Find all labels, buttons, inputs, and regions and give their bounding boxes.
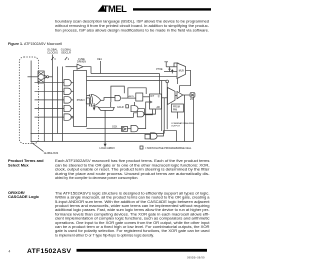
global bus region (dashed) xyxy=(19,57,38,144)
node GLOBAL CLOCKS label xyxy=(47,48,58,55)
wire OR to XOR xyxy=(87,95,91,97)
wire into mux M1 xyxy=(110,102,112,107)
AND gate G1 xyxy=(115,95,121,100)
wire output feedback xyxy=(184,95,186,142)
sidebar heading 1 xyxy=(8,158,44,167)
svg-text:LOGIC ARRAY: LOGIC ARRAY xyxy=(100,147,116,150)
AND gate PT4 xyxy=(64,105,71,111)
wire product term row 4 xyxy=(35,108,65,110)
AND gate G5 (fast feedback) xyxy=(151,133,158,139)
wire over-route 1 xyxy=(128,88,146,98)
legend text xyxy=(145,147,192,150)
AND gate PT1 xyxy=(64,80,71,86)
svg-text:OE/CLR: OE/CLR xyxy=(61,51,71,55)
wire net PTAS horizontal xyxy=(87,116,134,118)
svg-text:4: 4 xyxy=(9,250,11,254)
wire XOR output xyxy=(101,99,104,101)
svg-text:FROM: FROM xyxy=(173,106,180,108)
callout leader global bus xyxy=(32,143,44,152)
wire into G2 xyxy=(134,102,136,106)
wire PT1 output xyxy=(71,82,73,84)
svg-text:to implement either D or T typ: to implement either D or T type flip-flo… xyxy=(55,233,154,237)
product term select mux U1 xyxy=(74,71,87,127)
fuse cell F4 xyxy=(145,134,150,139)
wire PT3 output xyxy=(71,99,73,101)
wire bus return 1 xyxy=(31,133,165,135)
wire XOR output jog xyxy=(104,98,115,101)
svg-text:boundary scan description lang: boundary scan description language (BSDL… xyxy=(55,19,209,23)
svg-text:COMBINATORIAL/REG: COMBINATORIAL/REG xyxy=(171,122,195,125)
mux M2 (output select) xyxy=(168,88,176,105)
wire OE1 xyxy=(100,61,102,74)
node GCLR label xyxy=(117,106,124,109)
wire G5 output xyxy=(157,131,176,142)
wire net PTCLK horizontal xyxy=(87,80,166,82)
svg-text:tion process, ISP also allows: tion process, ISP also allows design mod… xyxy=(55,28,209,32)
wire OE input 2 xyxy=(164,71,177,73)
svg-text:0995B–08/99: 0995B–08/99 xyxy=(187,256,205,260)
wire product term row 2 xyxy=(35,90,65,92)
svg-text:without removing it from the p: without removing it from the printed cir… xyxy=(55,24,209,28)
wire product term row 3 xyxy=(35,99,65,101)
global bus line xyxy=(30,61,32,142)
wire mux M3 lower stub xyxy=(177,79,179,84)
node combinatorial output label xyxy=(171,122,195,128)
fuse cell F3 xyxy=(122,127,128,132)
node I/O label xyxy=(190,98,193,101)
mux M3 (OE select) xyxy=(177,63,186,79)
paragraph 2 xyxy=(55,191,210,237)
power VCC tick xyxy=(164,62,168,67)
arrow to next macrocell xyxy=(94,103,98,108)
latch U2 xyxy=(136,93,143,101)
label ASYN xyxy=(129,95,135,98)
wire OE feedback xyxy=(166,83,168,129)
sidebar heading 2 xyxy=(8,190,40,199)
bus width slash 2 xyxy=(65,57,67,60)
wire Q feedback xyxy=(163,98,165,134)
footer rule xyxy=(77,249,208,252)
wire OE column to buffer B2 xyxy=(66,66,78,68)
wire global clear column xyxy=(62,67,64,142)
svg-text:= NONVOLATILE PROGRAMMABLE CEL: = NONVOLATILE PROGRAMMABLE CELL xyxy=(145,147,192,150)
paragraph 1 xyxy=(55,159,211,180)
wire OE top corner xyxy=(174,63,178,67)
clock input marker U3 xyxy=(150,101,152,103)
svg-text:CASCADE Logic: CASCADE Logic xyxy=(8,194,40,199)
wire buffer B2 output xyxy=(83,67,91,74)
tri-state buffer B3 xyxy=(177,92,183,99)
svg-text:GCK: GCK xyxy=(112,126,118,129)
wire pin feedback xyxy=(193,97,195,141)
svg-text:GLOBAL BUS: GLOBAL BUS xyxy=(44,152,59,155)
svg-text:PTMUX: PTMUX xyxy=(77,100,86,102)
svg-text:PTOE: PTOE xyxy=(156,69,163,71)
wire over-route 2 xyxy=(111,86,124,102)
svg-text:TMEL: TMEL xyxy=(103,3,127,14)
wire Q output xyxy=(162,97,168,99)
svg-text:GCLR: GCLR xyxy=(117,106,124,109)
wire mux M1 output to logic array xyxy=(104,110,106,144)
wire product term row 5 xyxy=(35,116,65,118)
wire foldback PT row xyxy=(28,76,39,78)
node PTOE label xyxy=(156,69,163,71)
ground bubble xyxy=(166,80,169,83)
AND gate G4 (clock select) xyxy=(131,125,138,131)
svg-text:Select Mux: Select Mux xyxy=(8,162,29,167)
wire OE mux output to buffer enable xyxy=(180,70,191,92)
I/O pin PAD1 xyxy=(190,93,195,98)
wire G3 output to register AS xyxy=(144,109,156,114)
pin keeper box U4 xyxy=(172,104,184,112)
wire PT2 output xyxy=(71,90,73,92)
wire G1 output to latch xyxy=(121,97,136,99)
svg-text:OUTPUT: OUTPUT xyxy=(171,126,181,128)
wire net PTOE horizontal xyxy=(91,73,160,75)
register U3 (D/T flip-flop) xyxy=(150,94,162,109)
svg-text:Q: Q xyxy=(158,96,160,98)
AND gate PT5 xyxy=(64,114,71,120)
svg-text:D/T: D/T xyxy=(151,96,155,98)
Atmel logo xyxy=(98,3,127,14)
wire cascade feedback xyxy=(161,81,163,132)
wire PT4 output xyxy=(71,108,73,110)
top paragraph xyxy=(55,19,209,32)
inverter bubble PT5 xyxy=(71,116,73,118)
svg-text:DRIVEN: DRIVEN xyxy=(77,61,86,64)
AND gate G2 (async reset) xyxy=(131,106,138,112)
svg-text:abled by the compiler to decre: abled by the compiler to decrease power … xyxy=(55,176,138,180)
wire global clock column xyxy=(52,55,54,142)
fuse driven buffer label xyxy=(77,58,86,64)
wire into G3 xyxy=(134,113,138,118)
node GLOBAL BUS label xyxy=(44,152,59,155)
svg-text:AR: AR xyxy=(157,106,161,109)
svg-text:OE1: OE1 xyxy=(97,58,102,61)
wire U4 output xyxy=(177,112,179,119)
wire PT5 output xyxy=(72,116,75,118)
wire mux M2 output xyxy=(175,94,177,96)
fuse cell F2 xyxy=(126,105,129,108)
AND gate G3 (async preset) xyxy=(137,111,144,117)
fuse polarity cell xyxy=(86,98,89,104)
bus width digits xyxy=(54,58,70,61)
wire foldback to clock column xyxy=(49,76,53,78)
wire fuse to G4 xyxy=(128,128,132,130)
wire net clock row xyxy=(87,128,122,130)
svg-text:PIM: PIM xyxy=(173,109,177,111)
fuse mark on OE input xyxy=(168,67,170,72)
svg-text:ATF1502ASV Macrocell: ATF1502ASV Macrocell xyxy=(24,42,62,46)
fuse cell F1 xyxy=(38,71,44,83)
svg-text:ASYN: ASYN xyxy=(129,95,135,98)
buffer B1 xyxy=(44,75,46,79)
svg-text:MUX: MUX xyxy=(179,71,185,73)
bus width slash 3 xyxy=(51,57,53,60)
AND gate PT2 xyxy=(64,88,71,94)
wire VCC to mux M3 xyxy=(166,66,177,68)
arrow OE select xyxy=(171,70,173,74)
wire G4 output to register clock xyxy=(138,102,150,129)
wire product term row 1 xyxy=(35,82,65,84)
buffer B2 xyxy=(77,64,83,69)
wire fuse column xyxy=(43,84,45,142)
node GCK label xyxy=(112,126,118,129)
wire buffer B3 output to pin xyxy=(183,94,190,96)
wire PTOE drop to register xyxy=(159,74,161,95)
svg-text:CLOCKS: CLOCKS xyxy=(47,51,58,55)
wire net CASIN horizontal xyxy=(87,76,178,78)
wire G2 output to register AR xyxy=(138,109,153,115)
node OE1 label xyxy=(97,58,102,61)
mux M1 (reset select) xyxy=(98,107,114,110)
wire bus return 2 xyxy=(31,141,194,143)
svg-text:Figure 1.: Figure 1. xyxy=(8,42,23,46)
AND gate PT3 xyxy=(64,97,71,103)
node LOGIC ARRAY label xyxy=(100,147,116,150)
svg-text:ATF1502ASV: ATF1502ASV xyxy=(27,248,72,255)
svg-text:I/O: I/O xyxy=(190,98,193,101)
wire global OE column xyxy=(57,67,59,134)
node GLOBAL OE label xyxy=(61,48,72,55)
wire latch to register D input xyxy=(143,96,150,98)
header rule xyxy=(133,8,211,10)
XOR gate X1 xyxy=(89,94,91,106)
legend fuse symbol xyxy=(140,146,143,149)
